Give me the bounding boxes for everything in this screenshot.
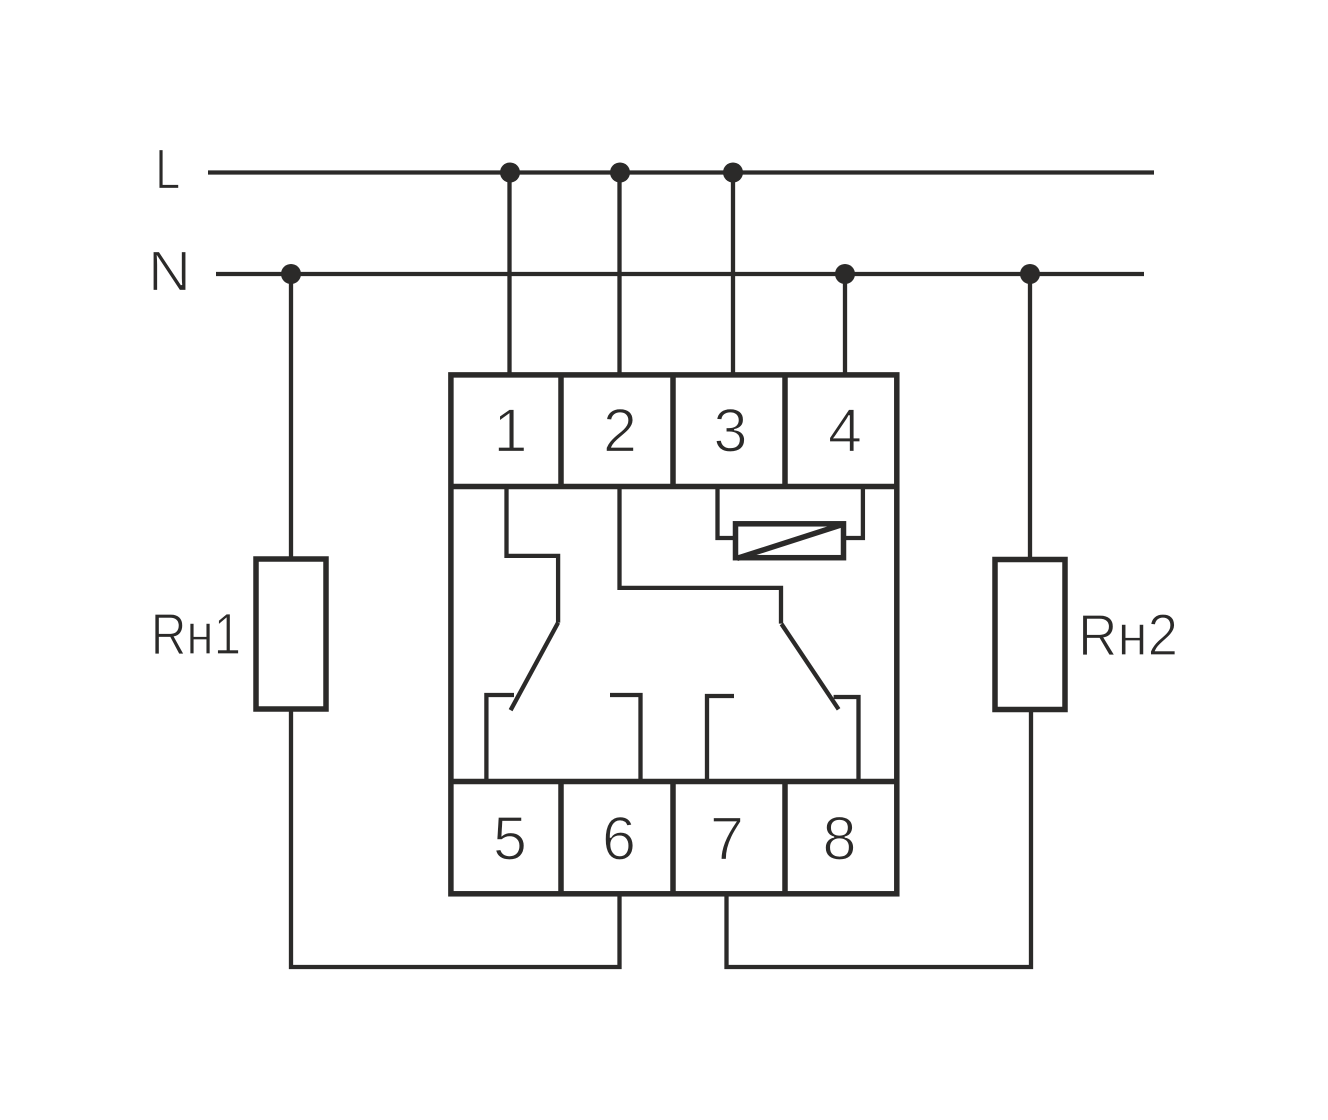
wire N to Rn2 (1028, 274, 1032, 559)
wire N to Rn1 (289, 274, 293, 559)
contact terminal 7 (707, 696, 734, 782)
wire L to terminal 3 (731, 173, 735, 376)
node N-4 junction (835, 264, 855, 284)
node N-Rn2 junction (1020, 264, 1040, 284)
wire pin 3 to coil (718, 487, 734, 539)
wire terminal 6 to Rn1 bottom (291, 709, 620, 967)
svg-text:1: 1 (494, 397, 528, 465)
contact terminal 5 (486, 695, 514, 782)
relay top terminal row separator (451, 484, 897, 490)
coil A1 (736, 524, 845, 559)
wire N rail (216, 272, 1144, 276)
svg-text:Rн1: Rн1 (151, 602, 242, 667)
svg-text:6: 6 (602, 805, 636, 873)
switch blade S1 (511, 623, 558, 711)
terminal divider 6/7 (670, 782, 676, 894)
svg-text:5: 5 (493, 805, 527, 873)
svg-text:N: N (148, 240, 191, 304)
node N-Rn1 junction (281, 264, 301, 284)
wire L to terminal 2 (617, 173, 621, 376)
terminal divider 1/2 (558, 375, 564, 487)
wire pin 4 to coil (846, 487, 863, 539)
relay K1 outline (451, 375, 897, 894)
terminal divider 3/4 (782, 375, 788, 487)
relay bottom terminal row separator (451, 779, 897, 785)
wire pole from pin 2 (620, 487, 782, 624)
wire terminal 7 to Rn2 bottom (727, 710, 1032, 967)
switch blade S2 (782, 624, 839, 709)
contact terminal 8 (834, 697, 859, 782)
node L-1 junction (500, 163, 520, 183)
svg-text:4: 4 (828, 397, 862, 465)
node L-2 junction (610, 163, 630, 183)
svg-text:8: 8 (823, 805, 857, 873)
resistor Rn1 (256, 559, 326, 709)
wire pole from pin 1 (507, 487, 559, 623)
wire L rail (208, 170, 1154, 174)
node L-3 junction (723, 163, 743, 183)
svg-text:7: 7 (710, 805, 744, 873)
resistor Rn2 (995, 560, 1065, 710)
terminal divider 5/6 (558, 782, 564, 894)
svg-text:L: L (155, 138, 180, 202)
svg-text:2: 2 (603, 397, 637, 465)
svg-text:3: 3 (714, 397, 748, 465)
contact terminal 6 (610, 695, 641, 782)
svg-text:Rн2: Rн2 (1078, 603, 1178, 668)
terminal divider 7/8 (782, 782, 788, 894)
wire L to terminal 1 (507, 173, 511, 376)
terminal divider 2/3 (670, 375, 676, 487)
wire N to terminal 4 (843, 274, 847, 375)
